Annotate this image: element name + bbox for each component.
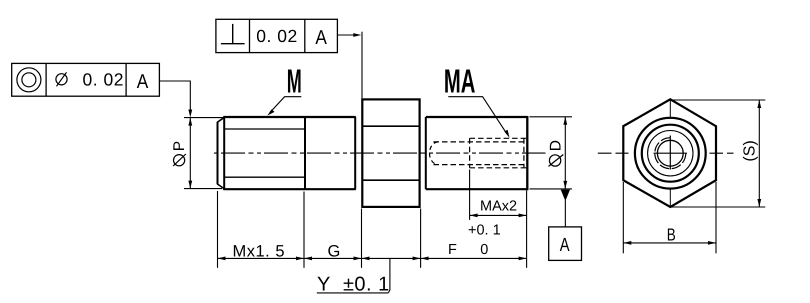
diaP bottom extension line — [184, 188, 222, 190]
drill hole end arcs — [430, 142, 439, 165]
S bottom extension line — [672, 206, 766, 208]
center cross horizontal — [654, 152, 688, 154]
diaP arrow down — [188, 181, 192, 189]
B dimension line — [623, 242, 716, 244]
svg-text:A: A — [137, 71, 149, 93]
svg-text:A: A — [315, 27, 327, 49]
hex vertical centerline bottom — [669, 189, 671, 207]
hidden thread major bottom line — [470, 167, 527, 169]
MAx2 arrows — [470, 214, 478, 218]
diaP arrow up — [188, 118, 192, 126]
svg-text:0: 0 — [480, 242, 488, 258]
diaP label — [171, 141, 188, 166]
flange face extension line up — [361, 32, 363, 99]
bottom dimension line — [218, 257, 527, 259]
MAx2 left extension line — [469, 170, 471, 220]
bottom extension line flange left — [361, 209, 363, 268]
thread minor diameter top line — [224, 128, 305, 130]
center cross vertical — [669, 136, 671, 170]
svg-text:+0. 1: +0. 1 — [468, 223, 501, 239]
B arrow right — [708, 241, 716, 245]
thread depth end dashed line — [469, 138, 471, 168]
shank end face at neck — [354, 117, 356, 189]
bottom extension line flange right — [420, 209, 422, 268]
arrow right end — [519, 257, 527, 261]
FCF concentricity leader — [159, 81, 190, 113]
MAx2 dimension line — [470, 214, 527, 216]
B arrow left — [623, 241, 631, 245]
svg-text:B: B — [667, 224, 676, 244]
B left extension line — [622, 182, 624, 253]
chamfer circle — [642, 125, 699, 182]
hex flange upper flat line — [362, 125, 419, 127]
S arrow down — [757, 199, 761, 207]
concentricity symbol — [17, 68, 41, 92]
diaP top extension line — [184, 117, 223, 119]
bottom extension line right face — [526, 191, 528, 268]
arrows at 361.5 — [354, 257, 362, 261]
mouth chamfer dashed line — [523, 138, 525, 168]
svg-text:(S): (S) — [742, 140, 759, 161]
hex view hexagon — [623, 99, 716, 207]
hex horizontal centerline — [598, 152, 734, 154]
thread minor diameter bottom line — [224, 176, 305, 178]
hex vertical centerline top — [669, 99, 671, 117]
datum feature triangle — [561, 190, 570, 201]
stud top edge — [223, 116, 356, 118]
thread end line — [304, 117, 306, 189]
svg-text:F: F — [448, 242, 457, 258]
diameter symbol in FCF — [56, 74, 67, 85]
FCF perpendicularity frame — [216, 19, 338, 52]
thread chamfer boundary line — [223, 117, 225, 189]
diaD top extension line — [530, 116, 573, 118]
cylinder left face at neck — [425, 117, 427, 189]
hidden drill hole bottom line — [434, 164, 527, 166]
hidden thread major top line — [470, 137, 527, 139]
svg-text:MA: MA — [444, 63, 476, 100]
perpendicularity symbol — [232, 24, 234, 44]
chamfer bottom diagonal — [217, 184, 224, 189]
stud left end face — [217, 122, 219, 184]
S dimension line — [758, 100, 760, 207]
svg-text:Y ±0. 1: Y ±0. 1 — [317, 274, 390, 296]
leader arrow right — [353, 33, 361, 37]
hex flange lower flat line — [362, 179, 419, 181]
svg-text:Mx1. 5: Mx1. 5 — [233, 242, 286, 260]
chamfer top diagonal — [217, 117, 224, 122]
hidden drill hole top line — [434, 141, 527, 143]
B right extension line — [715, 182, 717, 253]
arrows at 420.6 — [413, 257, 421, 261]
arrow left end — [218, 257, 226, 261]
diaD dimension line — [564, 117, 566, 189]
S top extension line — [671, 99, 765, 101]
FCF perpendicularity leader — [337, 34, 357, 36]
label M leader underline — [270, 97, 302, 113]
FCF concentricity frame — [12, 63, 160, 96]
cylinder bottom edge — [426, 188, 528, 190]
svg-text:MAx2: MAx2 — [480, 199, 517, 215]
diaD arrow down — [563, 181, 567, 189]
hex flange outline — [362, 99, 419, 206]
svg-text:D: D — [548, 140, 565, 151]
MA leader arrow — [504, 130, 509, 138]
datum box — [549, 227, 582, 261]
Y leader — [388, 258, 390, 293]
bottom extension line thread start — [217, 191, 219, 268]
stud bottom edge — [223, 188, 356, 190]
cylinder top edge — [426, 116, 528, 118]
label MA leader underline — [448, 97, 507, 135]
svg-text:0. 02: 0. 02 — [83, 69, 124, 89]
datum leader stem — [564, 200, 566, 227]
thread major arc — [655, 138, 686, 169]
svg-text:M: M — [287, 63, 302, 100]
Y underline — [317, 292, 389, 294]
arrows at 304 — [296, 257, 304, 261]
cylinder right face — [526, 116, 528, 190]
diaD bottom extension line — [530, 188, 573, 190]
tap drill circle — [657, 140, 683, 166]
centerline main view — [214, 152, 546, 154]
M leader arrow — [267, 109, 274, 115]
svg-text:A: A — [560, 235, 570, 256]
diaD label — [548, 140, 565, 166]
S arrow up — [757, 100, 761, 108]
bottom extension line thread end — [303, 192, 305, 268]
inner circle — [648, 131, 693, 176]
diaP dimension line — [189, 118, 191, 189]
svg-text:G: G — [328, 242, 341, 260]
leader arrow down — [188, 110, 192, 118]
outer circle — [635, 118, 706, 189]
svg-text:P: P — [171, 141, 188, 151]
svg-text:0. 02: 0. 02 — [256, 26, 297, 46]
diaD arrow up — [563, 117, 567, 125]
